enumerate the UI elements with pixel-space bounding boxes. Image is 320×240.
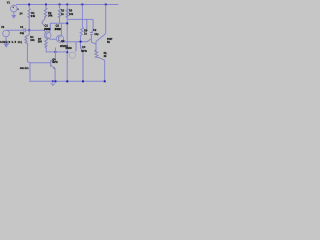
resistor R1	[28, 9, 30, 18]
junction dot col D at ground rail	[66, 80, 68, 82]
svg-text:24: 24	[20, 12, 23, 16]
wire: col F diagonal to output node	[96, 34, 106, 42]
svg-text:C1: C1	[20, 25, 24, 29]
wire: Q4 collector up to emitter node	[54, 52, 56, 58]
wire: col F from rail down	[105, 5, 107, 34]
wire: col D from rail to ground rail	[66, 5, 68, 82]
wire: Q2 base from Q1 emitter	[49, 38, 57, 41]
ground symbol below rail	[51, 81, 55, 85]
svg-text:V2: V2	[1, 25, 5, 29]
svg-text:10µ: 10µ	[94, 32, 99, 36]
resistor R4 (lower divider, slanted)	[25, 34, 29, 45]
wire: Q4 emitter down to ground rail	[54, 69, 56, 81]
svg-text:24k: 24k	[31, 14, 36, 18]
svg-text:V1: V1	[7, 1, 11, 5]
junction dot ground rail right end	[104, 80, 106, 82]
voltage source V2	[3, 30, 10, 37]
capacitor C2 (horizontal plates)	[90, 33, 93, 35]
svg-text:R3: R3	[61, 9, 65, 13]
wire: C2 bottom stem with jog to RL	[91, 35, 96, 51]
junction dot ground symbol at rail	[52, 80, 54, 82]
junction dot at R1/C1 base node	[28, 29, 30, 31]
wire: top supply rail	[16, 4, 118, 6]
svg-text:.tran 1m: .tran 1m	[20, 66, 30, 70]
junction dot col D collector node	[66, 22, 68, 24]
voltage source V1	[11, 5, 18, 14]
transistor Q3 (faint circle)	[69, 52, 75, 58]
svg-text:Q2: Q2	[61, 39, 65, 43]
svg-text:10µ: 10µ	[20, 31, 25, 35]
resistor R2 (slanted from rail to Q1)	[42, 5, 47, 27]
transistor Q2 (circled NPN)	[56, 35, 63, 42]
junction dot top rail col D	[66, 4, 68, 6]
wire: emitter node right to col D	[56, 51, 68, 53]
wire: R3 column stubs	[59, 5, 61, 24]
junction dot top rail col E	[81, 4, 83, 6]
svg-text:10k: 10k	[30, 38, 35, 42]
svg-text:+: +	[12, 6, 14, 9]
junction dot Q4 emitter at rail	[55, 80, 57, 82]
wire: Q2 emitter right to node E2	[61, 39, 91, 43]
junction dot emitter node	[55, 51, 57, 53]
svg-text:Q3: Q3	[82, 45, 86, 49]
polarity tick right of V1	[17, 9, 18, 10]
wire: collector leg from branch down	[86, 19, 88, 30]
wire: Q3 collector up	[75, 42, 77, 52]
resistor RL (slanted)	[95, 50, 105, 61]
wire: V2 bottom to ground	[5, 37, 7, 45]
wire: R1 column stubs	[28, 5, 30, 35]
wire: Q2 collector up to collector bus	[60, 23, 62, 35]
wire: branch from col D to C2 top plate	[67, 19, 93, 32]
wire: R7 bottom corner to emitter junction	[46, 48, 55, 52]
svg-text:2N39: 2N39	[66, 46, 73, 50]
junction dot col D on emitter bus	[66, 51, 68, 53]
svg-text:SINE(0 0.5 1k): SINE(0 0.5 1k)	[0, 40, 22, 44]
svg-text:C2: C2	[93, 28, 97, 32]
svg-text:R5: R5	[69, 9, 73, 13]
junction dot top rail col A	[28, 4, 30, 6]
ground under V2	[4, 44, 8, 47]
svg-text:10k: 10k	[69, 12, 74, 16]
junction dot top rail col F	[105, 4, 107, 6]
junction dot node E2	[80, 41, 82, 43]
svg-text:NPN: NPN	[81, 49, 87, 53]
wire: V2 top to C1	[6, 29, 24, 31]
capacitor C1	[24, 28, 26, 32]
wire: emitter node up stub	[55, 48, 57, 52]
svg-text:2N2222: 2N2222	[44, 27, 51, 31]
ground under V1	[12, 13, 16, 18]
svg-text:24k: 24k	[48, 14, 53, 18]
transistor Q1 (circled NPN)	[44, 32, 51, 39]
resistor R3	[58, 9, 60, 18]
svg-text:390: 390	[38, 40, 43, 44]
wire: Q1 collector up and over to col D	[49, 23, 67, 32]
junction dot top rail col C	[59, 4, 61, 6]
wire: RL bottom to ground rail end	[104, 60, 106, 81]
wire: divider column down and over to Q4 base	[27, 44, 50, 63]
wire: C1 to Q1 base	[26, 30, 46, 32]
wire: node E2 down to ground rail	[81, 43, 84, 82]
junction dot top rail col B	[45, 4, 47, 6]
transistor Q4 (bare NPN with arrow)	[51, 58, 56, 69]
wire: bottom ground rail with left riser	[30, 63, 105, 82]
resistor R5 on col D	[66, 9, 68, 18]
resistor R9 on col E (slanted) with column wire	[80, 5, 84, 42]
junction dot col E at ground rail	[82, 80, 84, 82]
svg-text:NPN: NPN	[52, 60, 58, 64]
svg-text:2N2222: 2N2222	[55, 27, 62, 31]
resistor R7 (emitter resistor)	[45, 39, 48, 48]
